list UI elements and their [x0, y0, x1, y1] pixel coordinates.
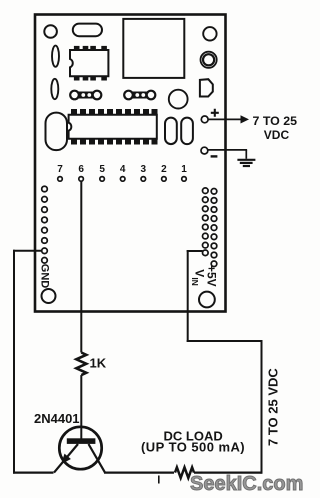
wire minus terminal to ground stem [208, 149, 247, 151]
svg-text:2N4401: 2N4401 [34, 411, 80, 426]
svg-text:2: 2 [161, 164, 167, 175]
plus sign [211, 109, 219, 117]
mounting hole top-right [203, 27, 216, 40]
resistor R 1K [76, 353, 86, 376]
header pin numbers [57, 164, 187, 175]
current tick [158, 476, 160, 484]
wire + to arrow [208, 118, 241, 120]
transistor Q1 emitter lead with arrow [54, 444, 78, 473]
oval pad right 2 [181, 118, 193, 145]
oval pad left 2 [51, 79, 58, 99]
GND pad column [42, 186, 48, 263]
IC U1 8-pin DIP [70, 46, 108, 80]
pad oval top [73, 24, 102, 37]
+5V / VIN pad columns [203, 188, 217, 267]
donut pad right [201, 52, 217, 68]
svg-text:4: 4 [120, 164, 126, 175]
svg-text:5: 5 [99, 164, 105, 175]
wire load to right rail [194, 472, 262, 474]
svg-text:(UP TO 500 mA): (UP TO 500 mA) [141, 440, 245, 455]
transistor Q1 collector lead [89, 444, 106, 473]
oval pad left 1 [52, 46, 59, 67]
IC U2 16-pin DIP [69, 110, 157, 145]
wire GND pad to left rail [13, 250, 42, 252]
svg-text:7 TO 25 VDC: 7 TO 25 VDC [266, 368, 281, 446]
svg-text:6: 6 [78, 164, 84, 175]
minus sign [211, 155, 218, 157]
svg-text:3: 3 [141, 164, 147, 175]
D-shaped pad [200, 79, 213, 96]
GND mounting hole [42, 289, 56, 303]
transistor Q1 2N4401 body circle [59, 427, 101, 469]
wire ground stem vertical [245, 150, 247, 159]
svg-text:SeekIC.com: SeekIC.com [190, 473, 303, 495]
oval pad right 1 [165, 118, 177, 145]
mounting hole top-left [44, 25, 57, 38]
large oval pad bottom-left [46, 113, 68, 151]
svg-text:7 TO 25: 7 TO 25 [253, 114, 298, 128]
mounting hole bottom-right [199, 292, 215, 308]
wire to right rail horizontal [187, 340, 263, 342]
svg-text:GND: GND [39, 264, 51, 289]
plus terminal pad [201, 116, 208, 123]
round pad center [169, 90, 188, 109]
resistor footprint 2 [124, 91, 155, 100]
resistor footprint 1 [70, 91, 101, 100]
svg-text:+5V: +5V [205, 265, 219, 287]
wire left rail to emitter [13, 472, 54, 474]
PCB board outline [35, 15, 226, 312]
transistor Q1 base bar [67, 438, 96, 444]
ground symbol [237, 160, 255, 166]
header pads [58, 177, 187, 182]
svg-text:1: 1 [181, 164, 187, 175]
svg-text:VDC: VDC [264, 128, 290, 142]
minus terminal pad [201, 147, 208, 154]
wire VIN drop vertical [187, 250, 189, 342]
wire left rail vertical [13, 250, 15, 474]
svg-text:1K: 1K [90, 356, 107, 371]
wire resistor to transistor base [80, 375, 82, 439]
arrowhead [241, 115, 250, 123]
wire pin6 down to resistor [80, 181, 82, 352]
svg-text:7: 7 [57, 164, 63, 175]
wire collector to load [104, 472, 174, 474]
large square component (relay/xfmr) [123, 19, 184, 78]
DC load resistor [175, 467, 194, 478]
wire VIN pad leftward [187, 250, 203, 252]
wire right rail vertical [261, 340, 263, 474]
